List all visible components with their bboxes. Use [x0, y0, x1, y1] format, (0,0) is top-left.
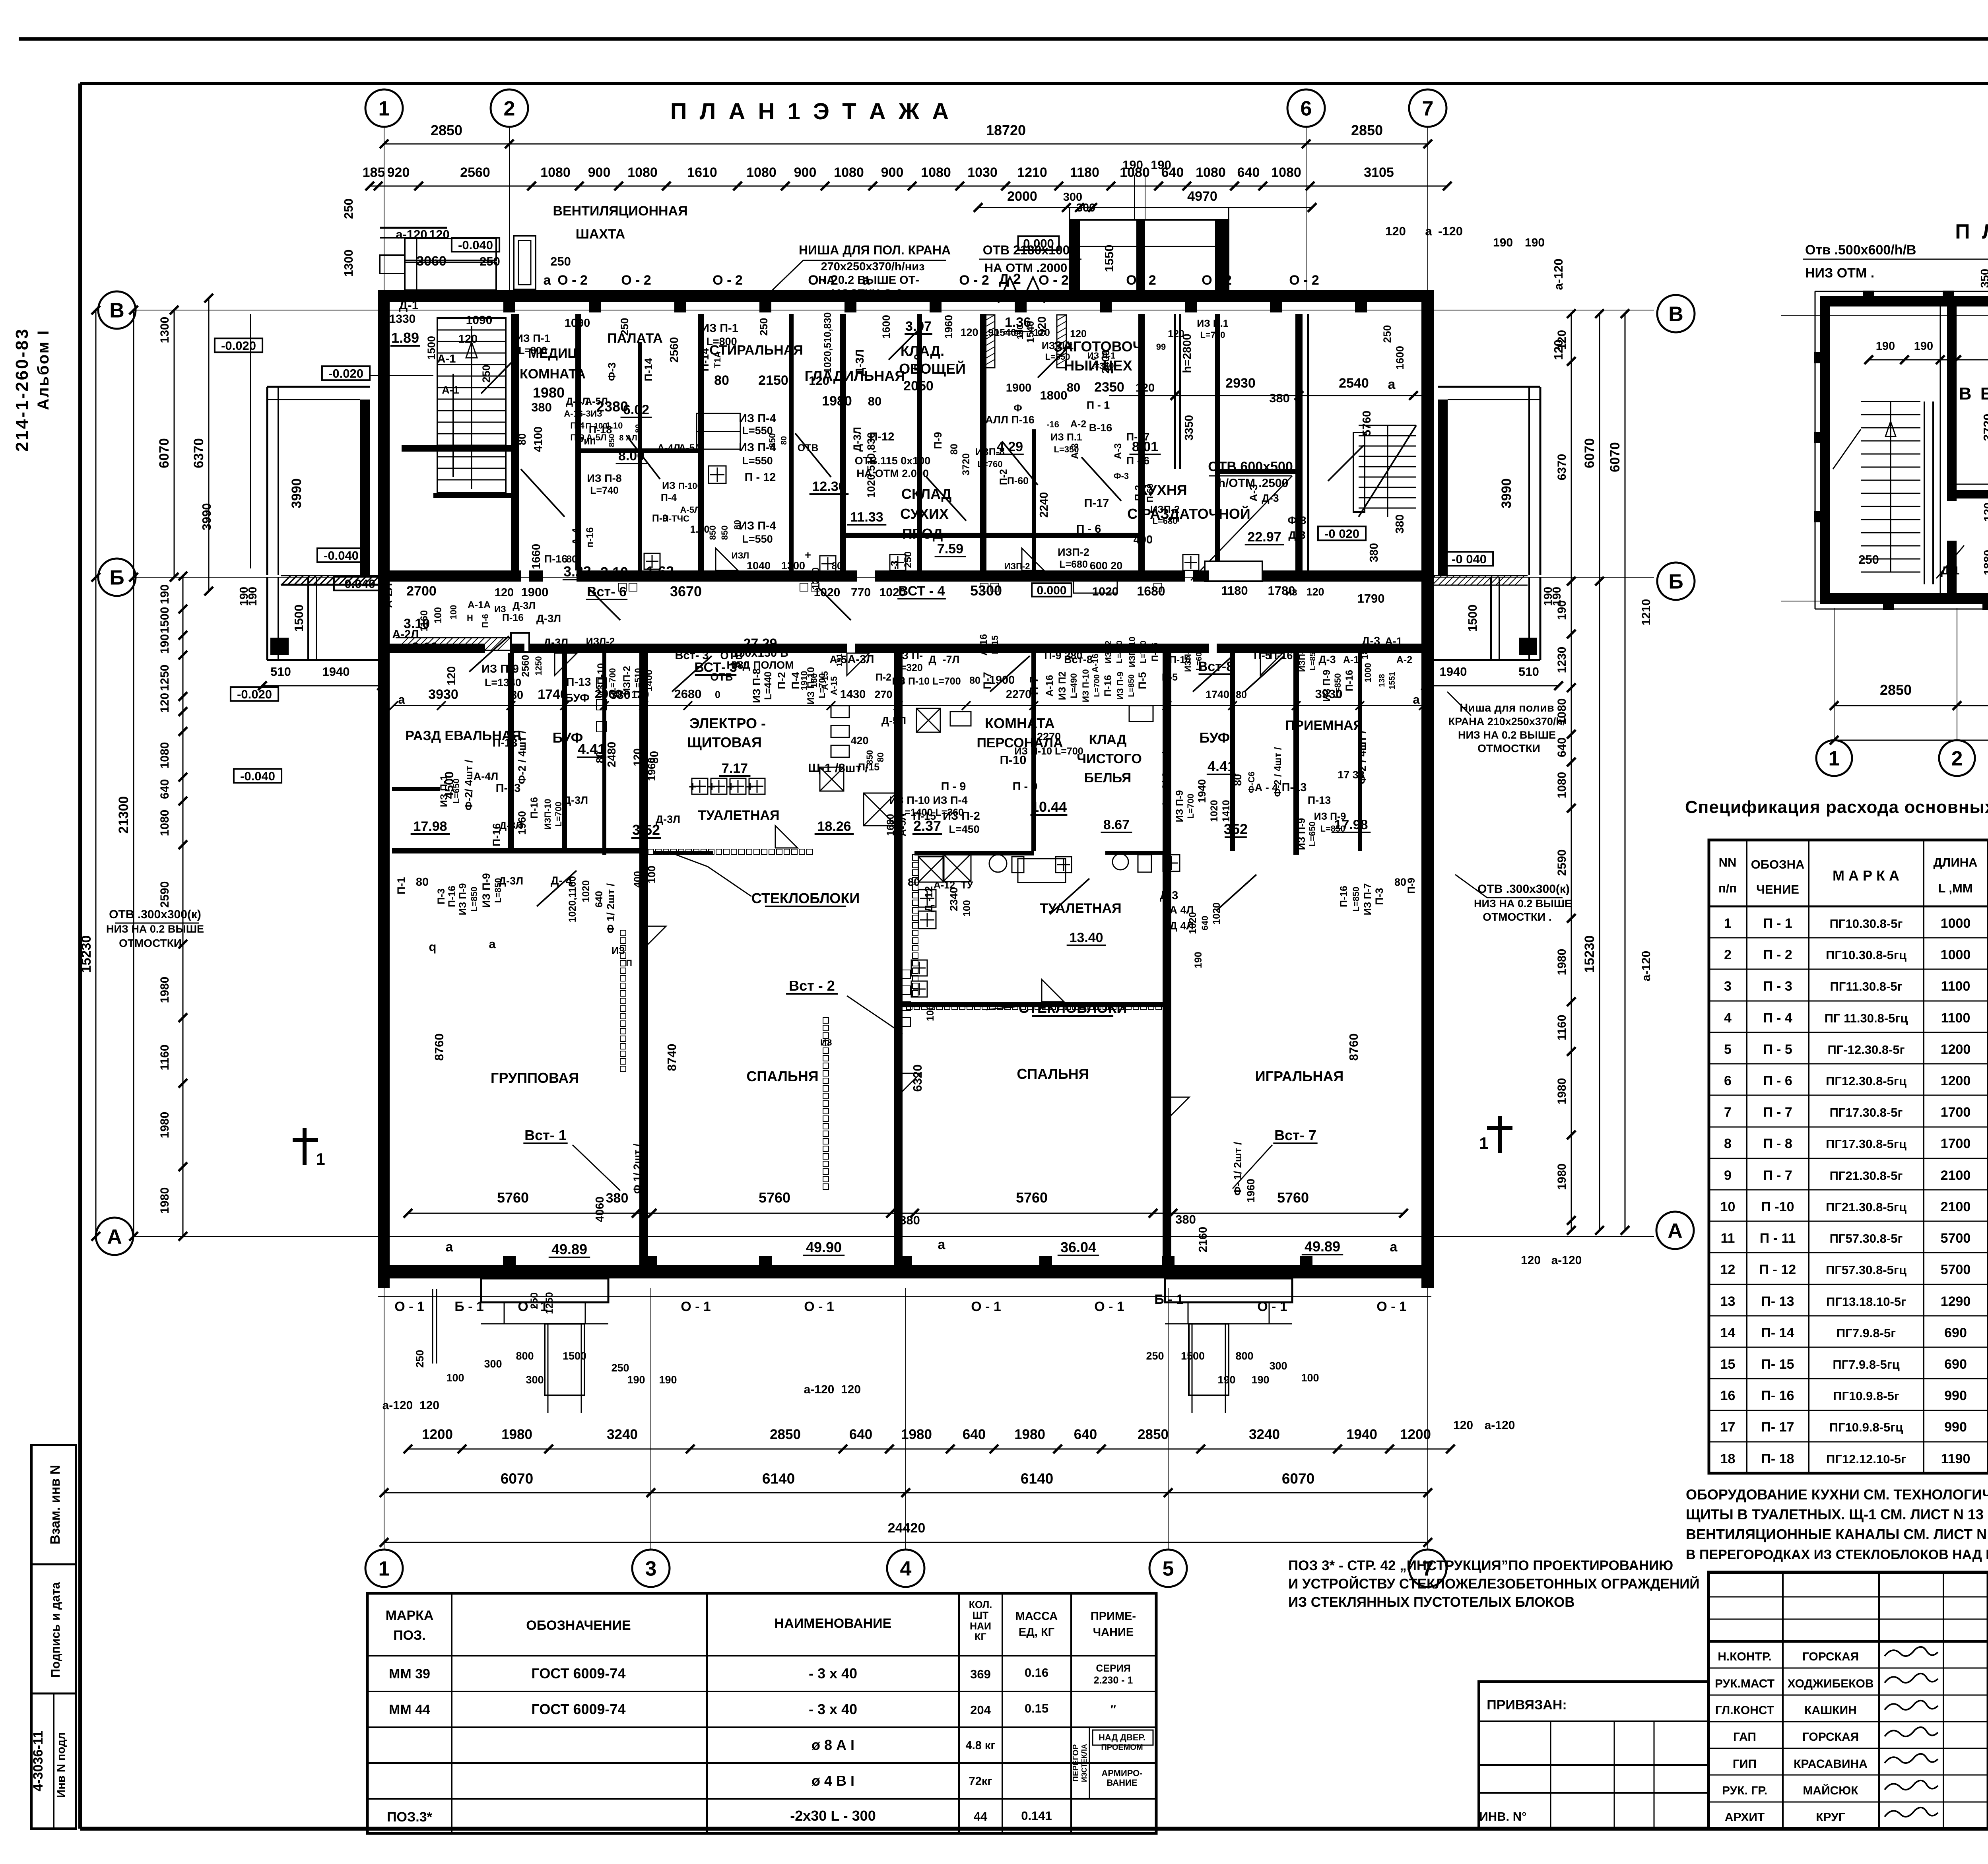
- svg-text:ПГ57.30.8-5г: ПГ57.30.8-5г: [1830, 1232, 1903, 1245]
- svg-text:ВЕНТИЛЯЦИОННЫЕ КАНАЛЫ СМ. Л: ВЕНТИЛЯЦИОННЫЕ КАНАЛЫ СМ. ЛИСТ N 14 .: [1686, 1526, 1988, 1542]
- svg-text:Т1А: Т1А: [712, 351, 722, 368]
- svg-text:12.30: 12.30: [812, 479, 846, 494]
- svg-text:2590: 2590: [1555, 850, 1569, 876]
- axis circle 5 bottom: [1149, 1550, 1187, 1587]
- axis line 3 vertical: [650, 1288, 651, 1550]
- frame left edge: [78, 83, 82, 1829]
- svg-text:1200: 1200: [1400, 1427, 1431, 1442]
- svg-text:ИГРАЛЬНАЯ: ИГРАЛЬНАЯ: [1255, 1068, 1344, 1084]
- svg-text:Д-3Л: Д-3Л: [851, 427, 863, 452]
- svg-text:190: 190: [1542, 587, 1555, 606]
- svg-text:СПАЛЬНЯ: СПАЛЬНЯ: [746, 1068, 818, 1084]
- axis line 7 vertical: [1427, 127, 1428, 1550]
- svg-text:1500: 1500: [158, 607, 171, 634]
- svg-text:1080: 1080: [921, 165, 951, 180]
- svg-text:Б: Б: [109, 566, 124, 590]
- svg-text:100: 100: [1301, 1372, 1319, 1384]
- svg-text:П-9: П-9: [932, 432, 944, 449]
- svg-text:П-100: П-100: [678, 481, 702, 491]
- svg-text:2350: 2350: [1094, 380, 1124, 395]
- svg-text:49.89: 49.89: [1305, 1238, 1340, 1255]
- dimension chain left 6070: [174, 310, 175, 577]
- svg-text:L=1340: L=1340: [485, 677, 521, 689]
- svg-text:2270: 2270: [1037, 731, 1061, 743]
- svg-text:1: 1: [379, 97, 390, 120]
- svg-text:190: 190: [158, 634, 171, 654]
- svg-text:СЕРИЯ: СЕРИЯ: [1096, 1663, 1130, 1674]
- wall exterior bottom: [378, 1265, 1434, 1278]
- svg-text:120: 120: [158, 693, 171, 713]
- staircase right: [1359, 425, 1416, 426]
- svg-text:О - 1: О - 1: [971, 1299, 1001, 1314]
- svg-text:ИЗП-2: ИЗП-2: [621, 666, 633, 695]
- svg-text:ИЗ П-4: ИЗ П-4: [739, 520, 776, 532]
- svg-text:1030: 1030: [967, 165, 998, 180]
- svg-text:L=700: L=700: [553, 802, 563, 827]
- svg-text:6: 6: [1301, 97, 1312, 120]
- svg-text:П-16: П-16: [502, 612, 524, 623]
- svg-text:О - 1: О - 1: [681, 1299, 711, 1314]
- svg-text:КАШКИН: КАШКИН: [1804, 1704, 1857, 1717]
- svg-text:120: 120: [631, 748, 643, 766]
- svg-text:О - 1: О - 1: [394, 1299, 425, 1314]
- svg-text:ПГ7.9.8-5гц: ПГ7.9.8-5гц: [1833, 1358, 1899, 1371]
- section mark 1 right: [1487, 1126, 1512, 1130]
- axis line Б horizontal: [135, 577, 1654, 578]
- svg-text:640: 640: [594, 891, 605, 908]
- svg-text:П -10: П -10: [1761, 1199, 1794, 1214]
- svg-text:О - 2: О - 2: [557, 273, 588, 288]
- svg-text:1960: 1960: [1245, 1179, 1257, 1203]
- svg-text:L=440: L=440: [763, 671, 774, 700]
- svg-text:120: 120: [1385, 224, 1406, 238]
- svg-text:L=680: L=680: [1059, 559, 1088, 570]
- svg-text:П-12: П-12: [870, 431, 895, 443]
- axis circle Б left: [98, 559, 136, 596]
- svg-text:ИЗЛ-2: ИЗЛ-2: [586, 636, 615, 647]
- svg-text:а: а: [1413, 692, 1420, 706]
- svg-text:270: 270: [874, 689, 892, 700]
- svg-text:4: 4: [900, 1558, 912, 1581]
- svg-text:П-13: П-13: [566, 676, 591, 689]
- svg-text:ГИП: ГИП: [1733, 1757, 1757, 1771]
- svg-text:ПРИЕМНАЯ: ПРИЕМНАЯ: [1285, 718, 1363, 733]
- svg-text:АЛЛ П-16: АЛЛ П-16: [985, 414, 1035, 426]
- svg-text:190: 190: [1493, 236, 1513, 249]
- svg-text:ПГ11.30.8-5г: ПГ11.30.8-5г: [1830, 980, 1902, 993]
- svg-text:ЧАНИЕ: ЧАНИЕ: [1093, 1626, 1134, 1639]
- svg-text:НИША ДЛЯ ПОЛ. КРАНА: НИША ДЛЯ ПОЛ. КРАНА: [799, 243, 951, 257]
- svg-text:Вст- 3: Вст- 3: [675, 649, 709, 662]
- title block signatures squiggles: [1885, 1647, 1938, 1656]
- svg-text:ЧЕНИЕ: ЧЕНИЕ: [1756, 883, 1799, 896]
- svg-text:1080: 1080: [627, 165, 658, 180]
- svg-text:120: 120: [1070, 328, 1087, 339]
- svg-text:а: а: [489, 937, 496, 951]
- svg-text:990: 990: [1944, 1388, 1967, 1403]
- svg-text:3: 3: [645, 1558, 657, 1581]
- svg-text:1700: 1700: [1941, 1105, 1971, 1120]
- dimension chain bottom spans: [384, 1492, 1428, 1494]
- svg-text:ММ 44: ММ 44: [389, 1702, 430, 1717]
- svg-text:А-1А: А-1А: [468, 599, 491, 611]
- svg-text:80: 80: [594, 751, 606, 763]
- svg-text:770: 770: [851, 586, 871, 599]
- wall exterior left: [378, 290, 390, 1288]
- svg-text:1980: 1980: [822, 394, 852, 409]
- svg-text:1080: 1080: [540, 165, 571, 180]
- svg-text:А-2: А-2: [1396, 654, 1412, 665]
- svg-text:190: 190: [659, 1374, 677, 1386]
- svg-text:2480: 2480: [606, 742, 618, 768]
- svg-text:1190: 1190: [1941, 1451, 1971, 1466]
- svg-text:Д-3: Д-3: [1160, 889, 1178, 902]
- svg-text:900: 900: [794, 165, 817, 180]
- svg-text:380: 380: [1368, 543, 1380, 562]
- svg-text:80: 80: [868, 394, 881, 408]
- svg-text:П-4: П-4: [790, 672, 802, 689]
- svg-text:1290: 1290: [1941, 1294, 1971, 1309]
- staircase main left: [437, 318, 506, 493]
- svg-text:ОТВ 2180х1000: ОТВ 2180х1000: [983, 243, 1077, 257]
- svg-text:214-1-260-83: 214-1-260-83: [12, 328, 32, 452]
- svg-text:300: 300: [484, 1358, 502, 1370]
- svg-text:17: 17: [1720, 1420, 1736, 1435]
- svg-text:900: 900: [588, 165, 611, 180]
- svg-text:КРУГ: КРУГ: [1816, 1811, 1845, 1824]
- svg-text:ТУАЛЕТНАЯ: ТУАЛЕТНАЯ: [698, 808, 779, 823]
- svg-text:1980: 1980: [1555, 1164, 1569, 1190]
- svg-text:НАИМЕНОВАНИЕ: НАИМЕНОВАНИЕ: [775, 1616, 892, 1631]
- svg-text:120: 120: [1453, 1419, 1473, 1432]
- svg-text:С РАЗДАТОЧНОЙ: С РАЗДАТОЧНОЙ: [1127, 505, 1250, 522]
- svg-text:2850: 2850: [770, 1427, 801, 1442]
- materials table rotated notes: [1089, 1727, 1090, 1799]
- svg-text:4970: 4970: [1187, 189, 1217, 204]
- svg-text:Д-3Л: Д-3Л: [544, 636, 568, 648]
- svg-text:Д-3Л: Д-3Л: [656, 813, 680, 825]
- svg-text:250: 250: [1858, 553, 1879, 566]
- svg-text:2000: 2000: [1007, 189, 1037, 204]
- svg-text:L=850: L=850: [469, 887, 479, 912]
- svg-text:СПАЛЬНЯ: СПАЛЬНЯ: [1017, 1066, 1089, 1082]
- svg-text:Д-3Л: Д-3Л: [513, 600, 536, 611]
- svg-text:0.16: 0.16: [1025, 1666, 1048, 1680]
- svg-text:300: 300: [1076, 202, 1095, 214]
- svg-text:НАД ДВЕР.: НАД ДВЕР.: [1099, 1732, 1145, 1742]
- svg-text:О - 1: О - 1: [1376, 1299, 1407, 1314]
- svg-text:850: 850: [608, 434, 616, 447]
- svg-text:250: 250: [619, 318, 631, 336]
- svg-text:Ф- 1/ 2шт /: Ф- 1/ 2шт /: [1232, 1142, 1244, 1196]
- svg-text:В: В: [1668, 303, 1683, 326]
- svg-text:120: 120: [495, 586, 514, 599]
- svg-text:П-17: П-17: [1084, 497, 1109, 510]
- svg-text:6070: 6070: [501, 1470, 533, 1487]
- svg-text:ИЗП-10: ИЗП-10: [596, 663, 607, 698]
- svg-text:2850: 2850: [1351, 122, 1383, 138]
- dimension chain left outer: [95, 310, 97, 1236]
- svg-text:А: А: [1668, 1220, 1683, 1243]
- svg-text:Инв N подл: Инв N подл: [55, 1732, 68, 1798]
- axis circle 1 bottom: [365, 1550, 403, 1587]
- svg-text:100: 100: [448, 605, 458, 620]
- svg-text:-0.040: -0.040: [340, 577, 375, 591]
- svg-text:Ф-3: Ф-3: [606, 362, 618, 381]
- glass block partition vertical center: [912, 855, 918, 860]
- svg-text:190: 190: [1122, 158, 1143, 172]
- svg-text:Д-3Л: Д-3Л: [563, 794, 588, 806]
- svg-text:1: 1: [1829, 747, 1840, 770]
- svg-text:1790: 1790: [1357, 592, 1385, 605]
- svg-text:100: 100: [646, 865, 658, 883]
- svg-text:190: 190: [1525, 236, 1545, 249]
- svg-text:1700: 1700: [1941, 1136, 1971, 1151]
- svg-text:2: 2: [504, 97, 515, 120]
- svg-text:80: 80: [566, 554, 577, 565]
- svg-text:80: 80: [1067, 380, 1080, 394]
- dimension chain bottom segments: [408, 1449, 1450, 1450]
- upper room width dim line: [1109, 395, 1428, 396]
- svg-text:L=680: L=680: [1153, 516, 1178, 526]
- axis line 2 vertical: [509, 127, 510, 302]
- svg-text:О - 1: О - 1: [1257, 1299, 1287, 1314]
- svg-text:ИЗП-10: ИЗП-10: [1127, 636, 1137, 667]
- svg-text:ГРУППОВАЯ: ГРУППОВАЯ: [491, 1070, 579, 1086]
- svg-text:а: а: [1388, 377, 1396, 392]
- svg-text:120: 120: [458, 333, 478, 345]
- svg-text:ЩИТЫ В ТУАЛЕТНЫХ. Щ-1 СМ.: ЩИТЫ В ТУАЛЕТНЫХ. Щ-1 СМ. ЛИСТ N 13: [1686, 1506, 1984, 1523]
- svg-text:ПГ21.30.8-5гц: ПГ21.30.8-5гц: [1826, 1200, 1906, 1214]
- svg-text:ДЛИНА: ДЛИНА: [1934, 855, 1978, 869]
- svg-text:1250: 1250: [534, 656, 544, 676]
- svg-text:Ф: Ф: [1013, 403, 1022, 414]
- svg-text:1980: 1980: [158, 1187, 171, 1214]
- svg-text:1180: 1180: [1221, 584, 1248, 597]
- svg-text:НИЗ НА 0.2 ВЫШЕ: НИЗ НА 0.2 ВЫШЕ: [1458, 729, 1556, 741]
- svg-text:4100: 4100: [532, 427, 545, 452]
- svg-text:190: 190: [247, 587, 259, 606]
- axis circle А right: [1656, 1212, 1694, 1249]
- axis circle А left: [96, 1218, 133, 1255]
- svg-text:Вст- 1: Вст- 1: [524, 1127, 567, 1143]
- svg-text:1550: 1550: [1102, 245, 1116, 272]
- svg-text:L=550: L=550: [742, 455, 773, 467]
- svg-text:Д-1: Д-1: [1941, 564, 1959, 577]
- svg-text:3060: 3060: [416, 254, 447, 269]
- svg-text:10.44: 10.44: [1031, 799, 1067, 815]
- svg-text:РУК. ГР.: РУК. ГР.: [1722, 1784, 1767, 1797]
- svg-text:8760: 8760: [1347, 1034, 1361, 1061]
- svg-text:120: 120: [1306, 586, 1324, 598]
- section mark 1 left: [293, 1138, 318, 1142]
- fixture small squares corridor: [618, 583, 626, 591]
- svg-text:-0.020: -0.020: [237, 687, 272, 701]
- axis line В horizontal: [135, 310, 1654, 310]
- wall corridor lower: [390, 644, 485, 653]
- basement door mark lower: [1936, 545, 1964, 578]
- svg-text:П - 6: П - 6: [1126, 455, 1149, 467]
- door flag diagonals texture: [521, 469, 565, 517]
- svg-text:44: 44: [974, 1810, 988, 1823]
- svg-text:ОТВ .300х300(к): ОТВ .300х300(к): [1477, 883, 1570, 896]
- svg-text:5760: 5760: [1277, 1189, 1309, 1206]
- svg-text:ИЗП-2: ИЗП-2: [1150, 504, 1180, 515]
- svg-text:ПГ10.9.8-5гц: ПГ10.9.8-5гц: [1829, 1420, 1903, 1434]
- svg-text:250: 250: [758, 318, 770, 336]
- svg-text:П - 12: П - 12: [1759, 1262, 1796, 1277]
- svg-text:6140: 6140: [762, 1470, 795, 1487]
- svg-text:1: 1: [379, 1558, 390, 1581]
- svg-text:920: 920: [387, 165, 410, 180]
- svg-text:ИЗП2: ИЗП2: [1103, 640, 1113, 663]
- svg-text:L=490: L=490: [1069, 673, 1079, 698]
- svg-text:1330: 1330: [389, 312, 416, 326]
- svg-text:БУФ: БУФ: [1200, 729, 1230, 746]
- svg-text:П - 6: П - 6: [1763, 1073, 1792, 1088]
- svg-text:1210: 1210: [1640, 599, 1653, 626]
- svg-text:80: 80: [634, 424, 643, 433]
- svg-text:П - 7: П - 7: [1763, 1168, 1792, 1183]
- svg-text:185: 185: [363, 165, 385, 180]
- svg-text:ЧИСТОГО: ЧИСТОГО: [1077, 751, 1142, 766]
- svg-text:2850: 2850: [1880, 682, 1912, 698]
- svg-text:ПГ10.9.8-5г: ПГ10.9.8-5г: [1833, 1389, 1899, 1403]
- svg-text:640: 640: [1200, 916, 1210, 931]
- svg-text:ОТМОСТКИ: ОТМОСТКИ: [1477, 742, 1540, 755]
- svg-text:ОТВ.115 0х100: ОТВ.115 0х100: [855, 455, 931, 467]
- svg-text:1160: 1160: [1555, 1014, 1569, 1040]
- svg-text:СУХИХ: СУХИХ: [900, 506, 949, 522]
- svg-text:А-1: А-1: [1385, 635, 1402, 647]
- basement stairs: [1861, 401, 1920, 402]
- svg-text:690: 690: [1944, 1325, 1967, 1340]
- svg-text:Д-3: Д-3: [1262, 492, 1279, 504]
- svg-text:ИЗ П-10: ИЗ П-10: [806, 667, 817, 705]
- svg-text:3240: 3240: [1249, 1427, 1280, 1442]
- svg-text:3990: 3990: [200, 503, 214, 531]
- svg-text:1980: 1980: [533, 384, 565, 401]
- svg-text:2930: 2930: [1225, 376, 1256, 391]
- fixture bath right: [1018, 859, 1066, 883]
- svg-text:420: 420: [850, 735, 868, 747]
- svg-text:НИЗ НА 0.2 ВЫШЕ: НИЗ НА 0.2 ВЫШЕ: [106, 923, 204, 935]
- svg-text:Д-3Л: Д-3Л: [499, 875, 523, 887]
- dimension chain bottom total: [384, 1542, 1428, 1543]
- svg-text:1500: 1500: [425, 336, 437, 360]
- svg-text:1430: 1430: [840, 688, 866, 701]
- svg-text:80: 80: [780, 436, 788, 445]
- svg-text:ОБОЗНАЧЕНИЕ: ОБОЗНАЧЕНИЕ: [526, 1618, 631, 1633]
- svg-text:а-120: а-120: [1551, 258, 1565, 290]
- svg-text:МАЙСЮК: МАЙСЮК: [1803, 1784, 1858, 1797]
- svg-text:ВАНИЕ: ВАНИЕ: [1107, 1778, 1137, 1788]
- glass block partition horizontal toilet2: [907, 1004, 912, 1010]
- axis circle 4 bottom: [887, 1550, 924, 1587]
- svg-text:ПГ7.9.8-5г: ПГ7.9.8-5г: [1837, 1326, 1896, 1340]
- svg-text:2150: 2150: [758, 373, 788, 388]
- svg-text:1080: 1080: [746, 165, 777, 180]
- svg-text:1100: 1100: [1941, 979, 1971, 994]
- dimension chain right outer: [1625, 314, 1626, 1230]
- svg-text:-0.040: -0.040: [240, 769, 275, 783]
- svg-text:ГЛ.КОНСТ: ГЛ.КОНСТ: [1715, 1704, 1774, 1717]
- svg-text:8760: 8760: [432, 1034, 446, 1061]
- svg-text:3.97: 3.97: [905, 319, 932, 334]
- svg-text:380: 380: [899, 1213, 920, 1227]
- svg-text:Ф 1/ 2шт /: Ф 1/ 2шт /: [631, 1143, 643, 1194]
- note elevation right -0.020: [1318, 526, 1366, 540]
- svg-text:А-5Л: А-5Л: [585, 396, 608, 407]
- svg-text:А-4Л: А-4Л: [657, 442, 680, 454]
- svg-text:1080: 1080: [158, 810, 171, 836]
- svg-text:ИНВ. N°: ИНВ. N°: [1479, 1810, 1526, 1823]
- svg-text:190: 190: [1914, 340, 1933, 353]
- svg-text:120: 120: [1033, 327, 1050, 338]
- svg-text:-0.040: -0.040: [458, 238, 493, 252]
- svg-text:2560: 2560: [668, 337, 681, 363]
- svg-text:1940: 1940: [1196, 779, 1208, 803]
- svg-text:П-ТЧС: П-ТЧС: [662, 514, 689, 524]
- interior walls upper band vertical: [511, 314, 519, 570]
- svg-text:1300: 1300: [342, 250, 355, 277]
- svg-text:А-4: А-4: [570, 528, 582, 545]
- svg-text:6070: 6070: [1282, 1470, 1314, 1487]
- svg-text:П-2: П-2: [876, 672, 891, 683]
- svg-text:8740: 8740: [665, 1044, 679, 1071]
- svg-text:1090: 1090: [565, 317, 590, 330]
- dimension chain kitchen porch top: [978, 207, 1312, 208]
- basement axis circle 1: [1816, 740, 1852, 776]
- svg-text:1980: 1980: [158, 977, 171, 1003]
- svg-text:а-120: а-120: [382, 1399, 413, 1412]
- side wall window marks right: [1424, 339, 1425, 376]
- svg-text:а: а: [1390, 1239, 1398, 1255]
- svg-text:ИЗ П-9: ИЗ П-9: [1296, 818, 1307, 850]
- svg-text:ИЗ Л-1: ИЗ Л-1: [1087, 351, 1116, 361]
- svg-text:- 3 х 40: - 3 х 40: [809, 1701, 857, 1717]
- svg-text:Б - 1: Б - 1: [454, 1299, 484, 1314]
- svg-text:1300: 1300: [158, 317, 171, 343]
- svg-text:L=450: L=450: [949, 823, 979, 835]
- top left porch structures: [405, 239, 496, 260]
- svg-text:Подпись и дата: Подпись и дата: [49, 1582, 62, 1678]
- svg-text:а: а: [1425, 224, 1432, 238]
- svg-text:1551: 1551: [1388, 672, 1397, 690]
- svg-text:99: 99: [1156, 342, 1166, 352]
- svg-text:L=650: L=650: [451, 779, 461, 804]
- svg-text:Ф-3: Ф-3: [1287, 514, 1306, 526]
- svg-text:ИЗ П-7: ИЗ П-7: [1362, 883, 1373, 916]
- svg-text:-120: -120: [1438, 224, 1463, 238]
- svg-text:-0.020: -0.020: [221, 339, 256, 353]
- svg-text:КГ: КГ: [975, 1631, 986, 1643]
- svg-text:100: 100: [925, 1005, 936, 1021]
- svg-text:2240: 2240: [1038, 492, 1050, 518]
- svg-text:1100: 1100: [1941, 1011, 1971, 1026]
- svg-text:ПРИВЯЗАН:: ПРИВЯЗАН:: [1487, 1697, 1567, 1713]
- svg-text:1: 1: [1724, 916, 1732, 931]
- svg-text:А-16: А-16: [1090, 654, 1100, 673]
- svg-text:640: 640: [1074, 1427, 1097, 1442]
- svg-text:190: 190: [1876, 340, 1895, 353]
- svg-text:1.10: 1.10: [606, 421, 623, 431]
- hatch wall left entry: [282, 575, 382, 576]
- svg-text:1800: 1800: [1040, 388, 1068, 402]
- svg-text:П-2: П-2: [1133, 485, 1144, 501]
- svg-text:ИЗП-9: ИЗП-9: [1183, 646, 1193, 672]
- svg-text:380: 380: [606, 1191, 629, 1206]
